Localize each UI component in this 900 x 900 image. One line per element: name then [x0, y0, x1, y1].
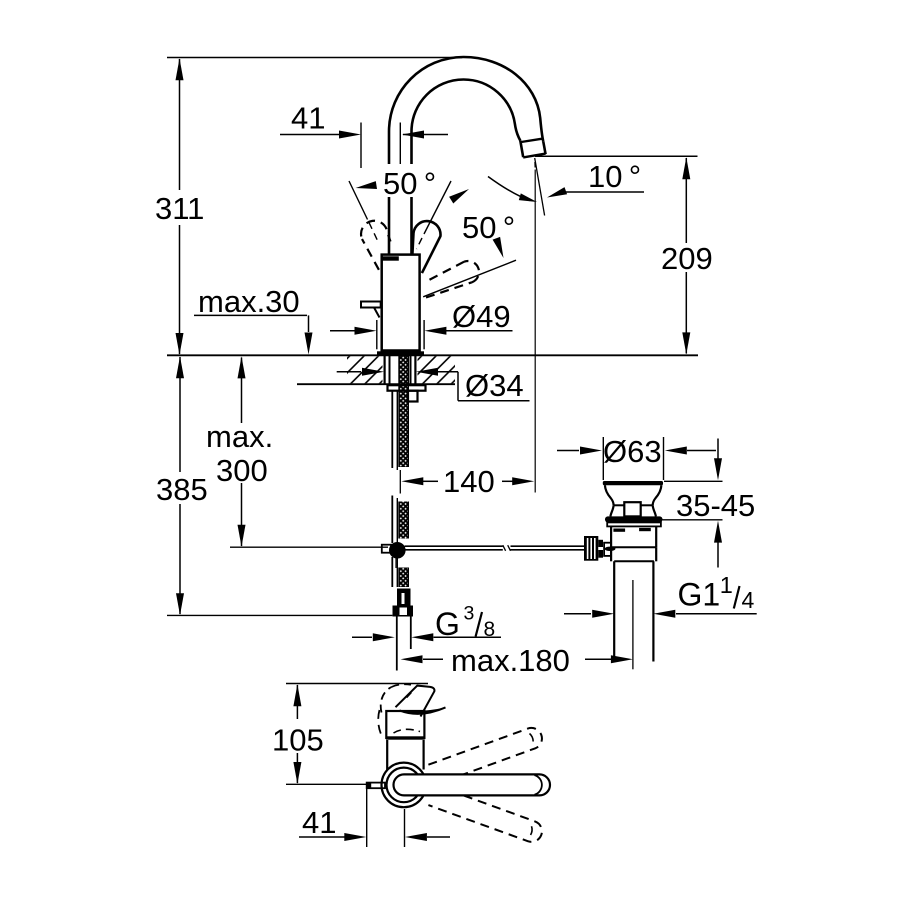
- svg-text:8: 8: [484, 618, 496, 641]
- svg-text:50 °: 50 °: [462, 210, 515, 245]
- svg-text:10 °: 10 °: [588, 159, 641, 194]
- svg-text:max.180: max.180: [451, 643, 570, 678]
- svg-text:max.30: max.30: [198, 284, 300, 319]
- svg-text:Ø49: Ø49: [452, 299, 511, 334]
- svg-text:41: 41: [302, 805, 336, 840]
- svg-text:35-45: 35-45: [676, 488, 755, 523]
- svg-text:max.: max.: [206, 419, 273, 454]
- svg-text:209: 209: [661, 241, 713, 276]
- svg-text:41: 41: [291, 101, 325, 136]
- svg-text:300: 300: [216, 453, 268, 488]
- svg-text:140: 140: [443, 464, 495, 499]
- svg-text:385: 385: [156, 472, 208, 507]
- svg-text:105: 105: [272, 723, 324, 758]
- svg-text:Ø34: Ø34: [465, 368, 524, 403]
- svg-text:Ø63: Ø63: [603, 434, 662, 469]
- svg-text:G: G: [435, 606, 460, 642]
- svg-text:4: 4: [742, 587, 755, 613]
- svg-text:3: 3: [464, 603, 475, 625]
- svg-text:G1: G1: [678, 577, 721, 613]
- svg-text:1: 1: [720, 572, 733, 598]
- svg-text:50 °: 50 °: [383, 166, 436, 201]
- svg-text:311: 311: [155, 191, 204, 226]
